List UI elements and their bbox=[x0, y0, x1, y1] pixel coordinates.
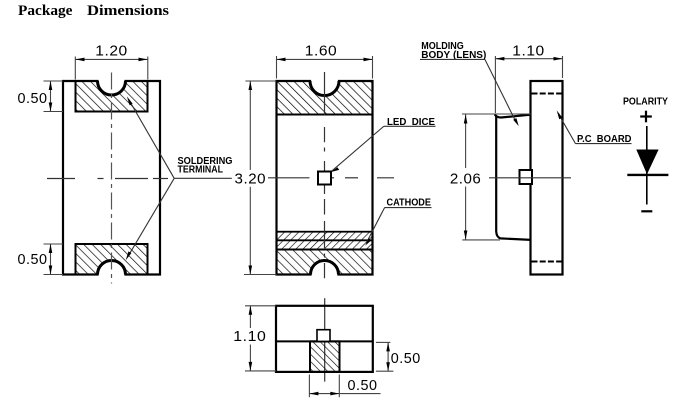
dice square side view bbox=[520, 170, 533, 184]
leader soldering terminal lower bbox=[128, 178, 175, 257]
dimension 0.50 (bottom view bottom) bbox=[309, 375, 380, 398]
body outline view1 bbox=[63, 81, 160, 275]
svg-text:2.06: 2.06 bbox=[450, 171, 482, 187]
svg-text:0.50: 0.50 bbox=[18, 91, 48, 107]
centerline horizontal view2 bbox=[268, 177, 394, 179]
centerline horizontal view1 bbox=[47, 178, 168, 180]
dimension 0.50 (bottom view right) bbox=[376, 342, 394, 371]
dimension 1.60 bbox=[277, 56, 373, 79]
svg-text:0.50: 0.50 bbox=[391, 351, 421, 367]
molding body top edge bbox=[495, 114, 531, 117]
notch arc top view1 bbox=[98, 81, 126, 95]
centerline vertical view2/view4 bbox=[324, 72, 326, 278]
soldering pad bottom view1 bbox=[76, 244, 148, 275]
PC board rectangle bbox=[531, 81, 563, 275]
dimension 0.50 top-left bbox=[44, 81, 64, 112]
diode cathode bar bbox=[627, 174, 668, 176]
leader molding body bbox=[485, 59, 515, 120]
leader shoulder soldering terminal bbox=[174, 177, 232, 179]
svg-text:0.50: 0.50 bbox=[348, 378, 378, 394]
diode symbol line bbox=[646, 126, 648, 205]
svg-text:CATHODE: CATHODE bbox=[387, 198, 432, 209]
notch arc top view2 bbox=[310, 81, 339, 96]
body outline view2 bbox=[277, 81, 373, 275]
leader PC board bbox=[559, 114, 576, 144]
LED dice square bbox=[318, 172, 331, 185]
plus sign bbox=[640, 111, 652, 123]
centerline horizontal view3 bbox=[489, 177, 571, 179]
dimension 1.10 (side view) bbox=[495, 56, 562, 113]
soldering pad top view1 bbox=[76, 81, 148, 112]
molding body left+bottom edge bbox=[496, 117, 531, 240]
leader LED dice bbox=[332, 126, 384, 171]
dimension 0.50 bottom-left bbox=[44, 244, 64, 275]
svg-text:1.10: 1.10 bbox=[233, 329, 266, 345]
svg-text:1.10: 1.10 bbox=[512, 44, 545, 60]
bottom view hatched terminal square bbox=[310, 341, 340, 372]
leader cathode bbox=[366, 208, 384, 243]
bottom terminal view2 bbox=[277, 250, 373, 275]
svg-text:POLARITY: POLARITY bbox=[623, 96, 668, 107]
dimension 2.06 bbox=[462, 114, 531, 240]
bottom view outline bbox=[276, 306, 373, 372]
minus sign bbox=[641, 210, 652, 212]
PC board dashed line top bbox=[532, 93, 563, 95]
svg-text:1.60: 1.60 bbox=[305, 44, 338, 60]
bottom view divider line bbox=[276, 340, 373, 342]
diode triangle bbox=[636, 150, 658, 175]
PC board dashed line bottom bbox=[532, 261, 563, 263]
svg-text:Dimensions: Dimensions bbox=[87, 3, 169, 19]
svg-text:3.20: 3.20 bbox=[235, 172, 267, 188]
svg-text:LED DICE: LED DICE bbox=[387, 117, 435, 128]
dimension 1.20 bbox=[75, 57, 148, 80]
svg-text:0.50: 0.50 bbox=[18, 252, 48, 268]
cathode mark bands bbox=[277, 232, 373, 250]
notch arc bottom view2 bbox=[311, 261, 339, 275]
svg-text:TERMINAL: TERMINAL bbox=[178, 164, 224, 175]
centerline vertical view1 bbox=[111, 73, 113, 284]
top terminal band view2 bbox=[277, 81, 373, 115]
bottom view lead tab bbox=[317, 330, 330, 342]
dimension 1.10 (bottom view) bbox=[245, 306, 276, 371]
notch arc bottom view1 bbox=[98, 261, 126, 275]
svg-text:1.20: 1.20 bbox=[95, 44, 128, 60]
svg-text:Package: Package bbox=[18, 3, 73, 19]
leader soldering terminal upper bbox=[129, 100, 175, 179]
dimension 3.20 bbox=[244, 81, 277, 275]
